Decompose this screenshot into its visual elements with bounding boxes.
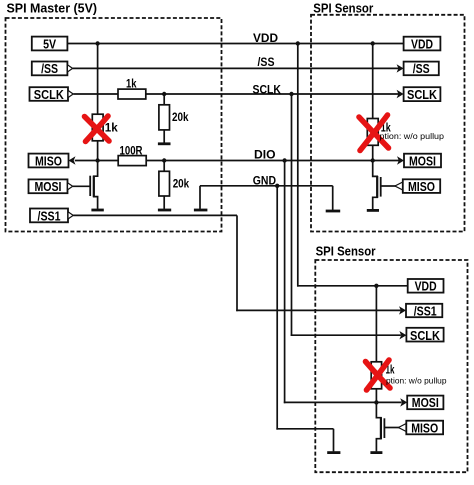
wire VDD vertical drop [297, 44, 299, 287]
svg-text:100R: 100R [120, 143, 143, 157]
svg-text:SCLK: SCLK [253, 84, 282, 96]
port /SS1 bottom sensor with input arrow [399, 303, 442, 318]
svg-text:/SS1: /SS1 [414, 303, 437, 318]
wire DIO vertical drop [284, 161, 286, 404]
svg-text:1k: 1k [126, 77, 137, 91]
node SCLK 20k junction [162, 92, 166, 96]
svg-text:DIO: DIO [254, 149, 276, 161]
svg-text:/SS: /SS [258, 57, 275, 69]
svg-text:MOSI: MOSI [412, 395, 439, 410]
wire SCLK net [73, 93, 400, 95]
wire VDD net [67, 43, 403, 45]
svg-text:MISO: MISO [411, 420, 438, 435]
transistor Q3 gate bar [383, 418, 385, 438]
resistor R2 20k vertical [159, 105, 189, 130]
node VDD top sensor junction [371, 41, 375, 45]
port MOSI bottom sensor with input arrow [400, 395, 443, 410]
node MOSI bottom sensor junction [374, 400, 378, 404]
svg-text:SCLK: SCLK [410, 328, 441, 343]
ground bottom sensor transistor [370, 451, 382, 454]
wire GND stub top sensor [332, 186, 334, 210]
port MISO bottom sensor with output arrow [398, 420, 443, 435]
transistor Q3 bottom sensor drain-source path [376, 402, 381, 451]
svg-text:SCLK: SCLK [34, 87, 65, 102]
svg-text:/SS: /SS [413, 61, 430, 76]
ground bottom sensor gnd entry [327, 451, 340, 454]
svg-text:MOSI: MOSI [35, 179, 62, 194]
node DIO 20k junction [162, 158, 166, 162]
svg-text:VDD: VDD [415, 279, 437, 294]
port MISO top sensor with output arrow [395, 179, 440, 194]
SPI Sensor (top) block outline [311, 15, 465, 232]
resistor R5 20k vertical [159, 171, 189, 196]
wire /SS1 vertical drop [236, 215, 238, 311]
SPI Master (5V) block outline [6, 18, 222, 232]
svg-text:MOSI: MOSI [409, 153, 436, 168]
transistor Q2 gate bar [380, 177, 382, 197]
wire SCLK vertical drop [291, 94, 293, 336]
red X over top sensor pullup R6 [359, 115, 389, 151]
port 5V master [32, 36, 68, 51]
port SCLK bottom sensor with input arrow [399, 328, 443, 343]
port VDD bottom sensor [408, 279, 444, 294]
ground 20k R2 [158, 142, 171, 145]
wire VDD entry to bottom sensor [297, 285, 408, 287]
svg-text:ption: w/o pullup: ption: w/o pullup [380, 132, 445, 141]
svg-text:VDD: VDD [253, 33, 278, 45]
node VDD bottom sensor junction [374, 284, 378, 288]
wire top sensor pullup vertical [372, 44, 374, 161]
ground master transistor [91, 209, 103, 212]
wire Q2 gate to MISO [381, 185, 396, 187]
wire GND vertical drop [276, 186, 278, 430]
svg-text:SPI Sensor: SPI Sensor [316, 243, 376, 258]
port MISO master with input arrow [29, 153, 76, 168]
transistor Q1 master drain-source path [94, 161, 98, 209]
port MOSI master [29, 179, 73, 194]
wire 20k R4 stub [163, 161, 165, 209]
transistor Q2 top sensor drain-source path [373, 161, 378, 210]
svg-text:5V: 5V [43, 36, 56, 51]
svg-text:MISO: MISO [35, 153, 62, 168]
svg-text:SCLK: SCLK [407, 87, 438, 102]
node SCLK drop junction [289, 92, 293, 96]
wire DIO entry to bottom sensor MOSI [284, 401, 402, 403]
wire GND net [200, 185, 333, 187]
wire SCLK entry to bottom sensor [291, 334, 401, 336]
svg-text:SPI Master (5V): SPI Master (5V) [7, 0, 98, 15]
wire DIO net [75, 160, 400, 162]
svg-text:1k: 1k [105, 120, 118, 134]
port MOSI top sensor with input arrow [397, 153, 441, 168]
resistor R1 1k horizontal [118, 77, 146, 99]
node DIO top sensor junction [371, 158, 375, 162]
svg-text:ption: w/o pullup: ption: w/o pullup [386, 377, 447, 386]
port /SS master [32, 61, 73, 76]
svg-text:MISO: MISO [408, 179, 435, 194]
svg-text:20k: 20k [173, 176, 190, 190]
transistor Q1 channel bar [93, 176, 95, 198]
wire /SS net [73, 67, 400, 69]
port SCLK top sensor with input arrow [397, 87, 441, 102]
wire 20k R2 stub [163, 94, 165, 143]
wire GND stub bottom sensor [333, 429, 335, 452]
port /SS1 master [30, 208, 73, 223]
resistor R3 1k crossed master [92, 114, 118, 141]
ground master gnd stub [194, 209, 208, 212]
node DIO master transistor junction [95, 158, 99, 162]
red X over master pullup R3 [85, 116, 110, 142]
node VDD drop junction [296, 41, 300, 45]
port /SS top sensor with input arrow [397, 61, 439, 76]
red X over bottom sensor pullup R7 [366, 360, 391, 390]
port VDD top sensor [404, 36, 441, 51]
svg-text:VDD: VDD [411, 36, 433, 51]
SPI Sensor (bottom) block outline [315, 260, 467, 472]
ground top sensor transistor [367, 209, 379, 212]
wire GND stub master [199, 186, 201, 209]
transistor Q2 channel bar [376, 176, 378, 198]
wire GND entry to bottom sensor [276, 428, 333, 430]
transistor Q3 channel bar [380, 417, 382, 439]
node GND drop junction [275, 184, 279, 188]
node DIO drop junction [282, 158, 286, 162]
ground top sensor gnd entry [326, 210, 341, 213]
wire Q3 gate to MISO [384, 427, 399, 429]
port SCLK master [30, 87, 74, 102]
svg-text:GND: GND [253, 175, 276, 187]
wire /SS1 entry to bottom sensor [236, 309, 401, 311]
svg-text:/SS1: /SS1 [38, 208, 61, 223]
resistor R7 1k crossed bottom sensor [371, 362, 394, 389]
transistor Q1 gate bar [89, 176, 91, 196]
resistor R6 1k crossed top sensor [367, 119, 391, 146]
svg-text:20k: 20k [172, 110, 189, 124]
wire /SS1 horizontal [73, 214, 237, 216]
svg-text:/SS: /SS [41, 61, 58, 76]
ground 20k R5 [158, 209, 171, 212]
node VDD master junction [95, 41, 99, 45]
wire bottom sensor pullup vertical [375, 286, 377, 403]
resistor R4 100R horizontal [118, 143, 146, 165]
svg-text:SPI Sensor: SPI Sensor [313, 1, 373, 16]
wire MOSI to gate [73, 185, 91, 187]
wire master pullup vertical [97, 44, 99, 161]
